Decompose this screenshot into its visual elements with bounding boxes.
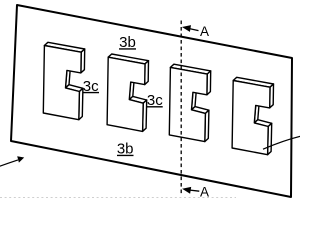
block 1 top slab face [44,42,84,52]
block 2 front C-shaped face [107,57,145,131]
block 3 right side face of top arm [207,71,211,95]
section arrow bottom [182,187,199,194]
label 3c left (underlined) [83,78,100,95]
label 3b top (underlined) [119,34,136,51]
section line A-A (dashed) [180,21,182,196]
block 2 right side face of top arm [145,61,149,85]
block 1 right side face of bottom arm [79,88,83,119]
block 3 [169,64,210,141]
block 1 notch inner left wall [66,67,71,88]
svg-text:A: A [200,24,209,39]
faint dashed baseline [0,197,236,199]
block 2 top slab face [108,54,148,64]
block 2 notch floor ledge [129,96,146,103]
block 3 front C-shaped face [169,67,207,141]
label 3c middle (underlined) [147,92,163,109]
leader line to block 4 [263,136,301,149]
block 2 [107,54,148,131]
block 2 notch inner left wall [129,79,134,100]
block 3 notch inner left wall [192,89,197,110]
section arrow top [182,25,199,32]
block 4 notch inner left wall [254,102,259,123]
panel 3b (plate) [11,5,292,197]
curved reference arrow bottom-left [0,156,24,167]
block 3 right side face of bottom arm [205,110,209,141]
label 3b bottom (underlined) [117,141,134,158]
block 2 right side face of bottom arm [143,100,147,131]
block 4 right side face of top arm [270,84,274,108]
block 4 top slab face [233,77,273,87]
block 4 right side face of bottom arm [268,123,272,154]
block 4 [232,77,273,154]
block 4 front C-shaped face [232,81,270,155]
block 4 notch floor ledge [254,120,271,127]
block 3 notch floor ledge [192,107,209,114]
block 3 top slab face [170,64,210,74]
block 1 [43,42,84,119]
svg-text:A: A [200,184,209,199]
block 1 notch floor ledge [66,85,83,92]
block 1 right side face of top arm [81,49,85,73]
block 1 front C-shaped face [43,46,81,120]
